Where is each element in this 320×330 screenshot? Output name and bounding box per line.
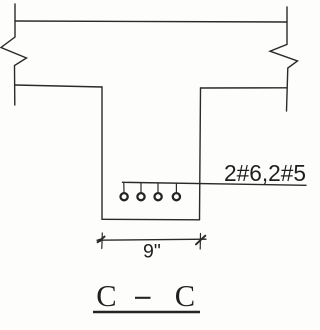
svg-text:2#6,2#5: 2#6,2#5 <box>224 160 306 186</box>
svg-text:C: C <box>96 279 116 313</box>
svg-text:9": 9" <box>143 241 161 263</box>
svg-text:C: C <box>175 279 195 313</box>
